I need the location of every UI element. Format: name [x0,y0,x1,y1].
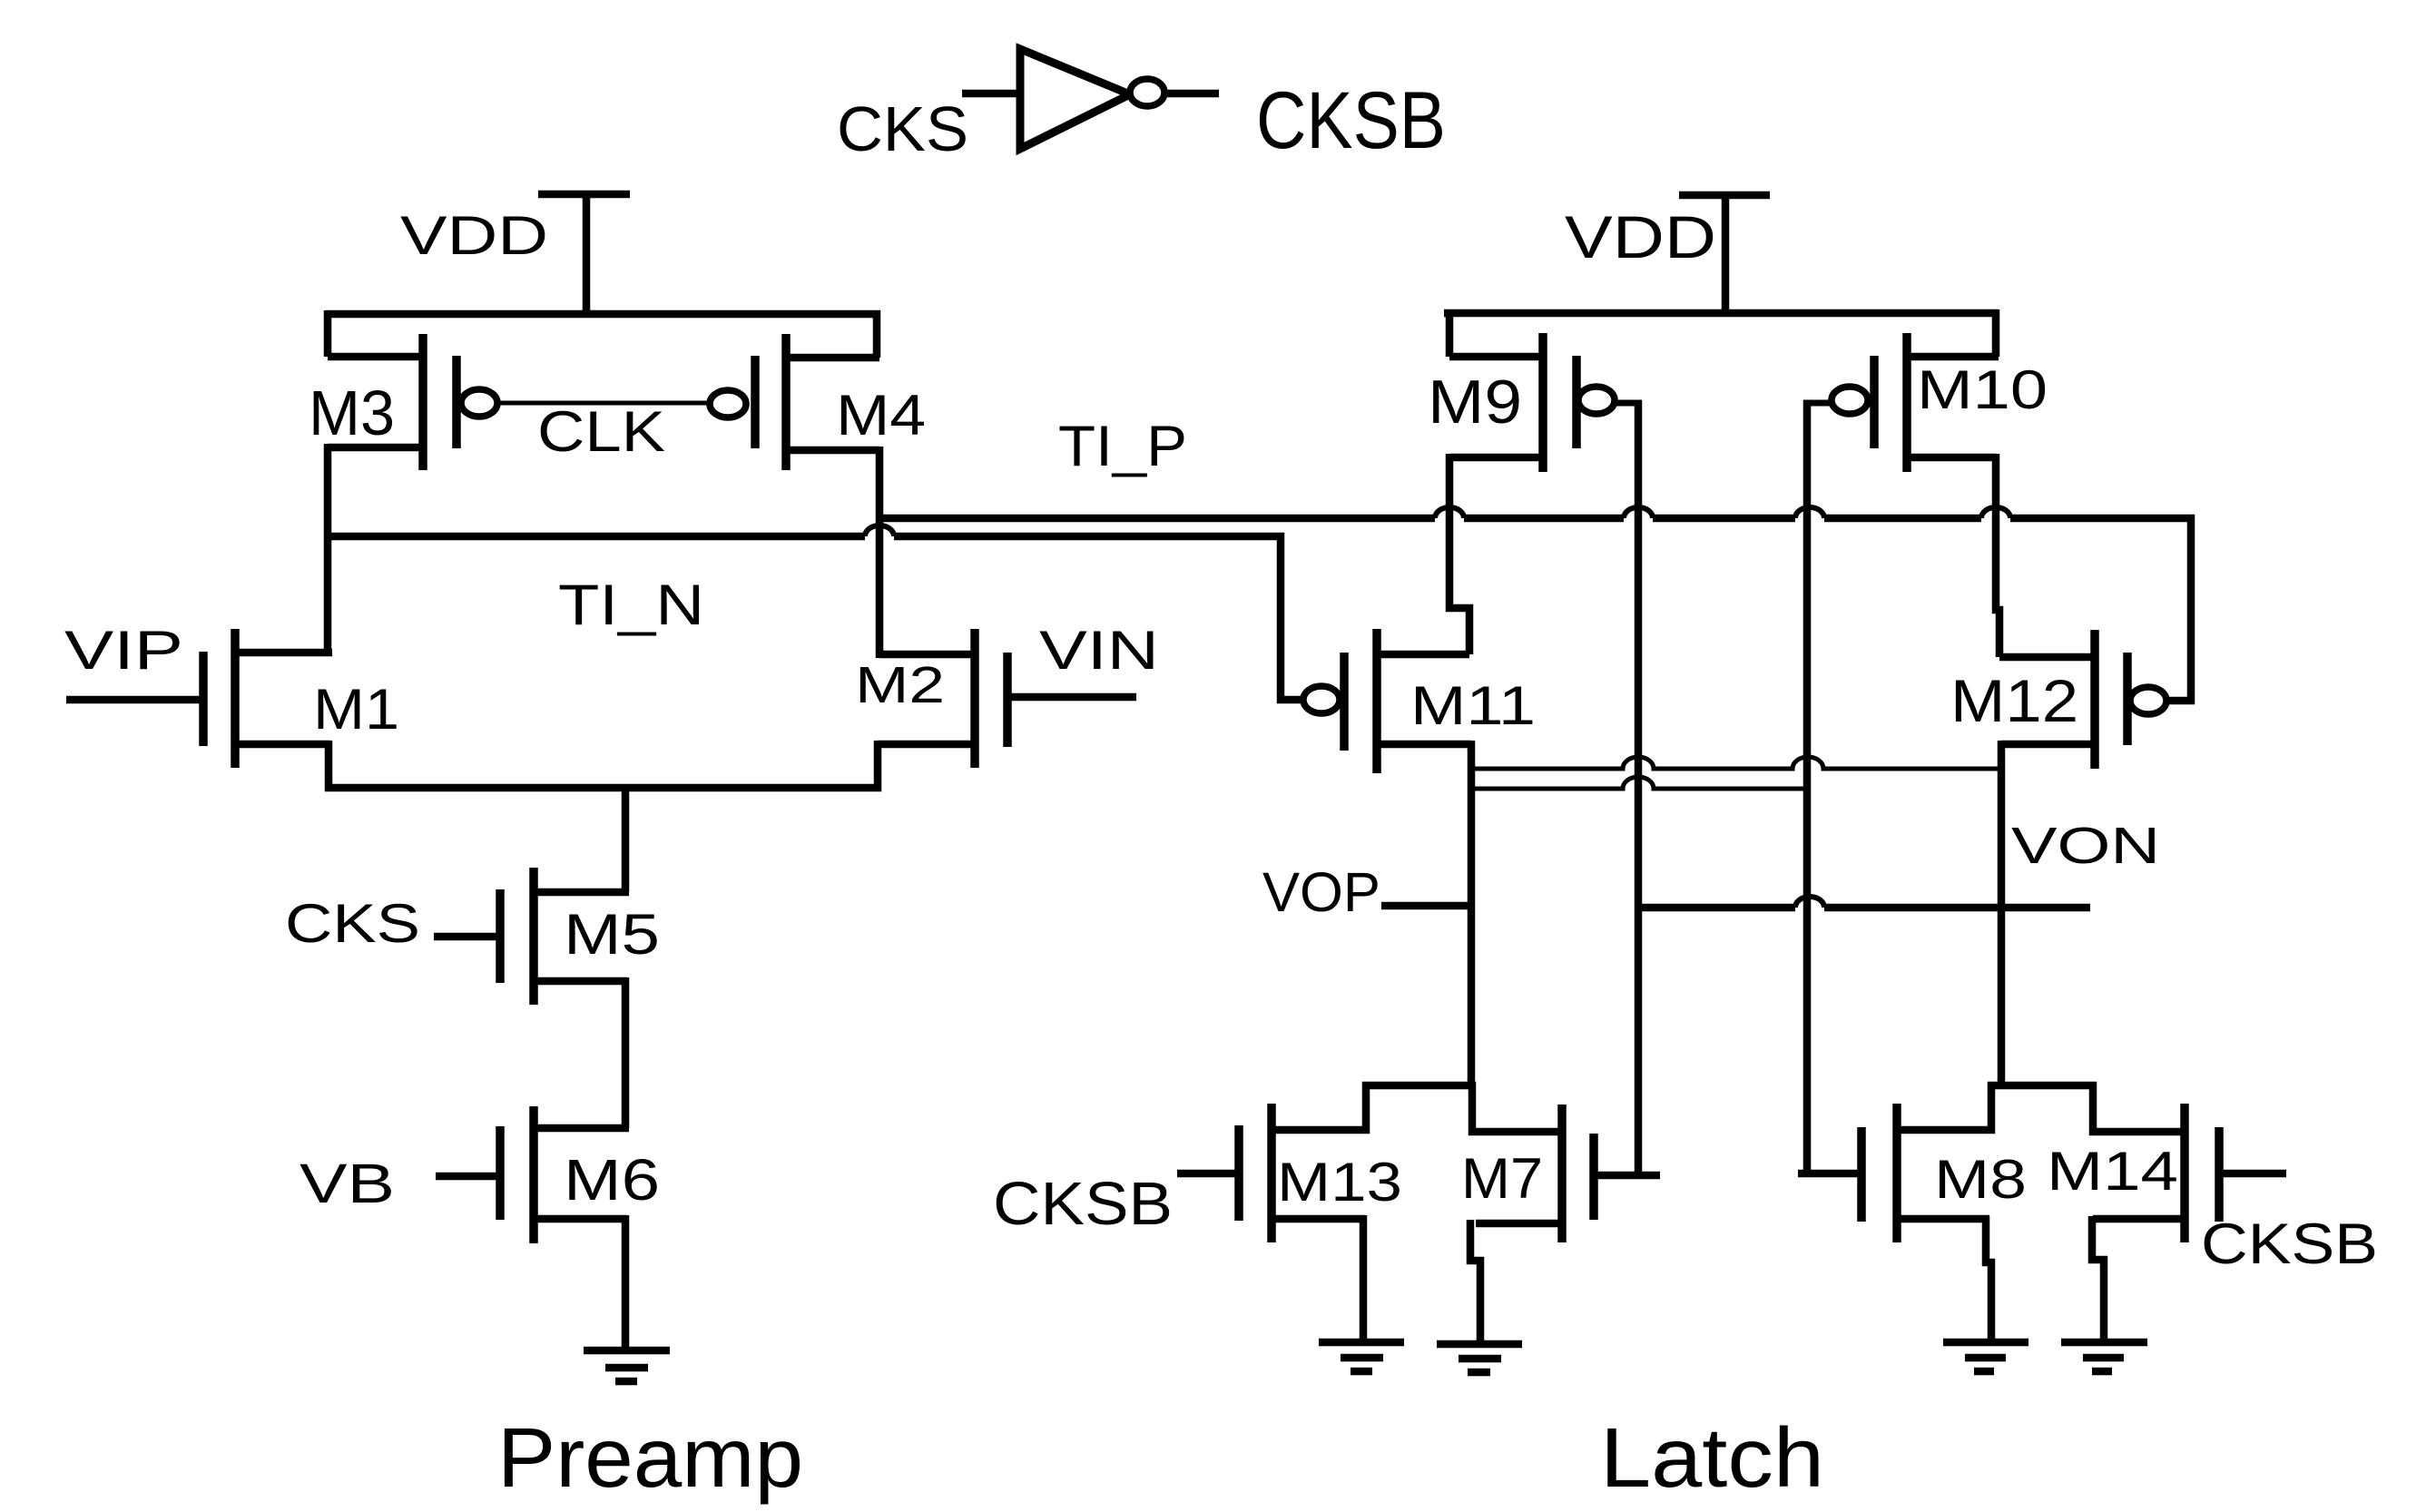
svg-text:CKSB: CKSB [993,1170,1173,1238]
wire cross couple upper line [1475,757,1998,769]
transistor M10 (PMOS) [1832,333,1999,472]
wire VOP vertical (M11 source down) [1468,741,1476,1089]
svg-text:M12: M12 [1950,667,2078,734]
wire VIP gate lead [66,696,203,704]
svg-text:M5: M5 [564,903,660,967]
wire M8/M14 drain rail [1897,1085,2185,1132]
ground (M7) [1437,1344,1522,1372]
wire M4 drain vertical (node TI_P) [876,447,884,658]
svg-text:TI_P: TI_P [1058,415,1187,478]
svg-text:CKSB: CKSB [1256,74,1446,165]
wire M8 source down [1986,1216,1991,1342]
transistor M7 (NMOS) [1476,1105,1594,1242]
svg-text:M6: M6 [564,1147,660,1213]
svg-text:CKSB: CKSB [2201,1213,2378,1276]
power VDD symbol (latch) [1679,195,1770,313]
wire latch top rail [1444,309,1999,318]
wire M13/M7 drain rail [1272,1085,1562,1132]
svg-text:M8: M8 [1934,1149,2027,1210]
wire cross couple lower line [1475,777,1803,789]
svg-text:M2: M2 [855,656,945,714]
svg-text:M7: M7 [1461,1147,1543,1211]
svg-text:CKS: CKS [285,893,420,954]
transistor M9 (PMOS) [1449,333,1615,472]
transistor M6 (NMOS) [500,1106,629,1243]
wire M8 gate lead [1798,1170,1861,1178]
transistor M1 (NMOS) [203,629,332,768]
transistor M14 (NMOS) [2093,1104,2219,1242]
transistor M2 (NMOS) [878,629,1007,768]
power VDD symbol (preamp) [538,194,630,314]
svg-text:TI_N: TI_N [558,574,704,637]
inverter U1 input wire [962,90,1017,98]
svg-text:Latch: Latch [1600,1410,1824,1505]
svg-text:VIP: VIP [64,620,183,681]
ground (preamp) [584,1350,670,1381]
wire M5 source to M6 drain [622,977,630,1128]
inverter U1 output wire [1166,90,1219,98]
wire VOP label lead [1381,902,1468,910]
wire TI_P horizontal with hops, to M12 gate [879,518,2191,701]
wire VB gate lead [436,1173,498,1181]
transistor M4 (PMOS) [710,334,879,470]
wire M9 gate lead to cross line [1616,400,1642,407]
wire CKS gate lead [434,933,500,941]
wire M10 gate lead [1803,400,1831,407]
inverter U1 triangle [1020,49,1130,149]
transistor M11 (PMOS) [1303,629,1471,773]
wire M4 source drop [873,310,881,358]
svg-text:VOP: VOP [1262,861,1380,923]
transistor M13 (NMOS) [1239,1104,1365,1242]
wire M9 gate vertical (VON side) [1635,400,1643,1175]
wire M3 drain vertical (node TI_N) [324,444,332,656]
svg-text:CLK: CLK [537,400,665,464]
svg-text:M11: M11 [1410,675,1536,736]
wire M9 drain to M11 drain [1449,454,1469,654]
wire VIN gate lead [1007,693,1136,702]
transistor M3 (PMOS) [328,334,497,470]
svg-text:CKS: CKS [837,93,968,164]
wire M10 source drop [1992,309,2000,357]
wire M7 source down [1470,1220,1480,1344]
wire M3 source drop [324,310,332,357]
wire VON vertical (M12 source down) [1998,741,2006,1089]
svg-text:VON: VON [2011,817,2160,875]
svg-text:VB: VB [300,1153,395,1214]
svg-text:M3: M3 [309,378,395,448]
wire CKSB gate lead (M13) [1177,1170,1239,1178]
svg-text:M4: M4 [836,384,926,447]
wire M13 source down [1360,1215,1368,1342]
inverter U1 output bubble [1130,79,1164,106]
svg-text:VIN: VIN [1039,620,1159,681]
wire preamp top rail [326,310,880,319]
svg-text:VDD: VDD [400,205,548,266]
svg-text:Preamp: Preamp [497,1410,803,1505]
svg-text:M13: M13 [1277,1152,1402,1213]
transistor M8 (NMOS) [1861,1104,1989,1242]
wire M10 drain to M12 drain [1996,454,1999,657]
wire M10 gate vertical (VOP side) [1803,400,1812,1173]
ground (M13) [1319,1342,1404,1371]
svg-text:VDD: VDD [1565,203,1716,270]
transistor M12 (PMOS) [1999,630,2166,769]
ground (M8) [1943,1342,2028,1371]
wire CLK gate wire [498,401,710,406]
svg-text:M9: M9 [1428,368,1522,437]
wire M9 source drop [1446,309,1454,357]
wire M6 source down [622,1215,630,1350]
wire CKSB gate lead (M14) [2219,1170,2286,1178]
svg-text:M14: M14 [2047,1141,2178,1202]
transistor M5 (NMOS) [500,868,629,1005]
wire VON cross line (M9 gate to VON) [1638,904,2090,912]
wire diff pair tail [329,741,878,788]
wire M7 gate lead [1594,1172,1660,1180]
svg-text:M10: M10 [1917,359,2048,420]
wire M14 source down [2092,1216,2104,1342]
wire TI_N horizontal with hop over M4 drain, to M11 gate [328,536,1303,700]
svg-text:M1: M1 [313,678,399,741]
wire tail drop to M5 [622,784,630,892]
ground (M14) [2061,1342,2147,1371]
